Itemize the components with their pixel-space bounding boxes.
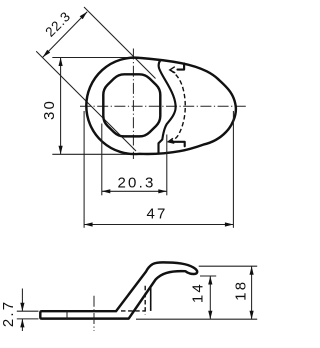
dimension 47: right extension line	[232, 111, 234, 228]
dimension 2.7: bottom extension line	[17, 318, 39, 320]
dimension 18 line	[251, 266, 253, 319]
svg-text:2.7: 2.7	[0, 300, 17, 327]
dimension 2.7 line	[21, 289, 23, 312]
dimension 30: bottom extension line	[52, 153, 136, 155]
arrow 30 up	[59, 58, 63, 67]
extension line A (45deg, lower-left, for dim 22.3)	[36, 51, 136, 151]
arrow 30 down	[59, 146, 63, 155]
arrow 47 left	[84, 222, 93, 226]
horizontal centerline	[80, 105, 246, 107]
dimension 18: top extension line	[199, 265, 258, 267]
svg-text:20.3: 20.3	[118, 174, 156, 191]
svg-text:47: 47	[146, 206, 167, 223]
arrow 18 down	[250, 311, 254, 320]
dimension 20.3: right extension line	[166, 135, 168, 196]
vertical centerline	[132, 49, 134, 160]
dimension 22.3 line	[43, 12, 87, 58]
dimension 47 line	[84, 224, 233, 226]
dimension 30: top extension line	[52, 57, 133, 59]
dimension 47: left extension line	[83, 111, 85, 228]
side outline: flat bar, S-bend, hook	[40, 262, 197, 318]
arrow 47 right	[225, 222, 234, 226]
arrow 2.7 up	[20, 319, 24, 328]
arrow 20.3 left	[102, 189, 111, 193]
arrow 22.3 upper-right	[80, 12, 88, 20]
cam outline	[86, 58, 236, 154]
hidden edge open arrow bottom	[168, 138, 174, 143]
bend step edge (top)	[178, 64, 185, 70]
arrow 14 down	[208, 311, 212, 320]
arrow 14 up	[208, 276, 212, 285]
svg-text:18: 18	[232, 280, 249, 301]
bottom shared extension line	[136, 318, 257, 320]
side view centerline	[93, 296, 95, 331]
arrow 18 up	[250, 266, 254, 275]
hidden bar edge (dashed horizontal)	[121, 310, 145, 312]
svg-text:30: 30	[41, 99, 58, 120]
dimension 20.3 line	[102, 190, 167, 192]
bend step edge (bottom)	[172, 142, 185, 147]
arrow 22.3 lower-left	[43, 50, 51, 58]
hidden bend edge (dashed arc)	[169, 70, 185, 142]
dimension 14: top extension line	[200, 275, 216, 277]
svg-text:14: 14	[189, 282, 206, 303]
hidden bend edge (dashed vertical)	[144, 286, 146, 315]
hidden edge open arrow top	[170, 67, 175, 73]
fold (bend) line	[159, 60, 176, 153]
dimension 14 line	[209, 276, 211, 319]
arrow 2.7 down	[20, 303, 24, 312]
dimension 20.3: left extension line	[101, 124, 103, 196]
octagonal hole	[103, 74, 160, 136]
edge tick inside bar	[66, 311, 68, 318]
extension line B (45deg, upper-right, for dim 22.3)	[84, 7, 156, 79]
arrow 20.3 right	[158, 189, 167, 193]
dimension 30 line	[60, 58, 62, 155]
dimension 2.7: top extension line	[17, 310, 39, 312]
visible bend edge (vertical)	[150, 286, 152, 311]
